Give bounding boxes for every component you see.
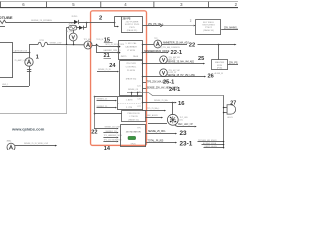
phototube stub wire: [0, 26, 5, 28]
wire monitor out 1: [146, 133, 175, 135]
wire to box pin2: [97, 45, 118, 53]
ammeter A4: [7, 139, 16, 151]
svg-text:SENSE2_25: SENSE2_25: [97, 106, 108, 108]
svg-text:25-1: 25-1: [163, 79, 174, 85]
svg-text:SENSE_25_MA: SENSE_25_MA: [154, 99, 168, 102]
svg-text:REF21_ALGN: REF21_ALGN: [205, 145, 218, 148]
wire to ammeter A3: [142, 44, 154, 46]
diode D2: [79, 26, 86, 30]
svg-text:SENSE_25_MA_VM_ADJ: SENSE_25_MA_VM_ADJ: [168, 60, 195, 63]
svg-text:23-1: 23-1: [180, 141, 193, 148]
node junction dot 2: [114, 22, 116, 24]
node dot bus pin 76: [142, 76, 144, 78]
svg-text:SENSE_25V_TMP: SENSE_25V_TMP: [105, 126, 122, 128]
svg-text:PTEC2: PTEC2: [205, 27, 213, 29]
svg-text:LT MON: LT MON: [127, 50, 135, 52]
wire sense1 input: [97, 100, 116, 102]
wire to precision box: [94, 113, 122, 115]
sheet top border thick line: [0, 7, 238, 9]
wire tube left pin 2: [145, 117, 161, 119]
node dot bus pin 102: [142, 102, 144, 104]
wire riser to PS box top: [115, 17, 122, 22]
svg-text:SENSE_25_20: SENSE_25_20: [98, 69, 111, 71]
open arrowhead: [160, 24, 162, 27]
atm box with dashed divider: [118, 97, 143, 110]
wire to PTEC box: [163, 25, 194, 27]
cathode rail wire: [29, 40, 84, 47]
arrowhead 23-1: [175, 142, 177, 144]
fuse F1: [69, 24, 80, 30]
svg-text:SENSE1_25I: SENSE1_25I: [106, 131, 118, 133]
bottom right join wire 3: [204, 147, 224, 149]
voltmeter VM5: [160, 69, 180, 77]
wire diode D1 to node: [79, 22, 114, 24]
arrowhead 16: [175, 102, 177, 104]
svg-text:(25): (25): [180, 120, 184, 122]
svg-text:GND_1: GND_1: [2, 84, 8, 86]
svg-text:ALINEA_ENGA: ALINEA_ENGA: [203, 142, 217, 145]
node dot rail-fuse: [66, 44, 68, 46]
inner zone border grey: [0, 46, 67, 114]
underline 15: [104, 42, 113, 44]
wire below A1: [29, 66, 31, 86]
node dot bus pin 63: [142, 63, 144, 65]
polarity tick marks: [27, 70, 31, 72]
svg-text:TP1_MA: TP1_MA: [84, 38, 92, 41]
wire tube left pin 1: [142, 110, 164, 112]
svg-text:26: 26: [208, 74, 214, 80]
svg-text:2: 2: [99, 15, 102, 21]
svg-text:MTR_45_MONITORS: MTR_45_MONITORS: [106, 44, 125, 46]
wire left drop vertical: [94, 96, 96, 128]
node dot on wire 22: [218, 44, 220, 46]
svg-text:LED25: LED25: [227, 117, 233, 119]
wire top of atm box: [127, 93, 224, 96]
voltmeter VM1: [66, 30, 78, 45]
node dot 113: [94, 113, 96, 115]
wire tube output: [175, 125, 195, 126]
power supply box PS25: [122, 17, 143, 33]
svg-text:TP5_25V_MA_COMMON: TP5_25V_MA_COMMON: [158, 46, 180, 49]
arrowhead hammerdrum: [167, 52, 169, 54]
arrowhead A4 wire: [55, 145, 57, 147]
svg-text:OTUBE: OTUBE: [0, 15, 13, 20]
svg-text:www.qslabs.com: www.qslabs.com: [11, 127, 45, 132]
svg-text:PAGE: PAGE: [133, 55, 139, 58]
svg-text:22: 22: [91, 129, 97, 135]
wire voltmeter VM5 row: [142, 76, 204, 78]
svg-text:25V PWR: 25V PWR: [126, 63, 136, 65]
svg-text:SENSE1_25: SENSE1_25: [97, 98, 108, 100]
svg-text:25V PS: 25V PS: [123, 18, 131, 20]
svg-text:TP5_25V_MONITOR: TP5_25V_MONITOR: [104, 140, 122, 142]
svg-text:1. 45V CAL: 1. 45V CAL: [125, 42, 137, 45]
node dot left drop: [94, 96, 96, 98]
svg-text:25 MON: 25 MON: [127, 70, 136, 72]
svg-text:CATHODE_K18: CATHODE_K18: [14, 50, 28, 53]
node dot 16: [172, 102, 174, 104]
svg-text:TP7GEM_485_ENGR: TP7GEM_485_ENGR: [198, 140, 217, 142]
svg-text:25V_MAINS_L: 25V_MAINS_L: [224, 26, 238, 29]
wire left drop top: [94, 96, 117, 98]
svg-text:REF_ALIGN: REF_ALIGN: [147, 114, 158, 117]
big loop right vertical: [223, 95, 225, 148]
svg-text:22: 22: [189, 42, 195, 48]
calibrate box 21: [119, 41, 143, 60]
svg-text:SENSE_25_OK1: SENSE_25_OK1: [148, 131, 166, 133]
svg-text:4MA1: 4MA1: [7, 139, 12, 142]
svg-text:SENSE_LOW: SENSE_LOW: [50, 43, 62, 45]
svg-text:CALIBRATE: CALIBRATE: [125, 45, 138, 48]
wire cathode riser: [29, 45, 31, 53]
underline 21: [104, 58, 112, 60]
svg-text:(PAGE 36): (PAGE 36): [203, 29, 214, 32]
diode D1: [72, 16, 79, 24]
wire tube lower left: [148, 123, 167, 125]
svg-text:AMMETER_25_MA_ADJ: AMMETER_25_MA_ADJ: [163, 41, 189, 44]
wire drop to PS box pin: [115, 22, 118, 27]
svg-text:HAMMERDRUM_DRIVE: HAMMERDRUM_DRIVE: [144, 50, 170, 53]
svg-text:SENSE_25_BYPASS: SENSE_25_BYPASS: [31, 19, 52, 22]
svg-text:1. ATM: 1. ATM: [126, 98, 133, 101]
svg-text:REF_LED_OP: REF_LED_OP: [178, 124, 193, 126]
wire to box pin1: [97, 45, 118, 47]
svg-text:(PAGE 31): (PAGE 31): [127, 29, 138, 32]
svg-text:PRECISION: PRECISION: [127, 113, 139, 115]
left phototube box: [0, 43, 13, 78]
svg-text:23: 23: [180, 130, 188, 137]
svg-text:LOW_25: LOW_25: [169, 72, 176, 74]
power control box 24: [120, 61, 143, 96]
svg-text:(PAGE 31): (PAGE 31): [128, 118, 139, 121]
wire branch down: [86, 22, 88, 28]
bottom right join wire 1: [198, 141, 224, 143]
wire into 24 box: [97, 71, 117, 73]
svg-text:MON: MON: [217, 65, 223, 67]
wire drop to master box: [218, 44, 220, 60]
wire ammeter A4 out: [15, 145, 55, 147]
phototube terminal squiggle: [0, 20, 6, 24]
sheet top border thin line: [0, 1, 238, 3]
svg-text:TP5_25_MA_L: TP5_25_MA_L: [147, 107, 160, 110]
bottom right join wire 2: [202, 144, 224, 146]
border column ticks: [1, 2, 209, 8]
svg-text:16: 16: [178, 101, 185, 107]
ammeter A1: [15, 58, 34, 66]
precision box: [122, 111, 146, 122]
wire stub 25-1: [142, 82, 146, 84]
svg-text:JMP25: JMP25: [121, 56, 127, 58]
svg-text:2. ITM: 2. ITM: [126, 107, 132, 109]
voltmeter VM4: [160, 56, 180, 64]
arrowhead wire 22: [234, 44, 236, 46]
gate U27: [223, 105, 236, 119]
svg-text:TOTAL_PLUS5: TOTAL_PLUS5: [148, 140, 164, 143]
svg-text:(PAGE 36): (PAGE 36): [126, 78, 137, 81]
orange highlight box: [91, 11, 147, 146]
wire monitor out 2: [146, 142, 175, 144]
wire 22 to right: [198, 44, 235, 46]
svg-text:25V MONITOR: 25V MONITOR: [126, 132, 141, 134]
svg-text:MASTER: MASTER: [215, 61, 225, 64]
node dot bus pin 44: [142, 44, 144, 46]
svg-text:CONTROL: CONTROL: [126, 67, 137, 69]
ammeter A2: [84, 38, 93, 49]
svg-text:TP2: TP2: [154, 38, 157, 40]
ammeter A3: [154, 38, 162, 48]
svg-text:SENSE_25_HV_VM_LOW: SENSE_25_HV_VM_LOW: [168, 75, 196, 77]
stubs to atm box top: [132, 93, 138, 97]
wire bypass top: [6, 22, 75, 24]
node dot: [96, 44, 98, 46]
svg-text:14: 14: [104, 146, 111, 150]
svg-text:LT MON: LT MON: [129, 116, 137, 118]
svg-text:2DP05: 2DP05: [72, 16, 78, 18]
arrowhead tube output: [195, 126, 197, 128]
orange highlight glow: [91, 11, 147, 146]
svg-text:HAMMER_DRM_25: HAMMER_DRM_25: [104, 49, 121, 52]
svg-text:25V_PS_OK: 25V_PS_OK: [229, 62, 238, 64]
monitor box inputs: [94, 126, 123, 142]
tube lamp V1: [167, 114, 188, 125]
monitor box 22: [121, 125, 146, 147]
node dot bus pin 52: [142, 52, 144, 54]
svg-text:24-1: 24-1: [169, 87, 180, 93]
wire ammeter A3 out: [162, 44, 187, 46]
cathode wire: [12, 52, 29, 54]
wire tube top drop: [172, 102, 174, 115]
wire hammerdrum drive: [142, 52, 166, 54]
arrowhead 23: [175, 133, 177, 135]
bus vertical right of boxes: [142, 44, 144, 102]
wire PTEC output: [221, 29, 238, 31]
svg-text:TM_25V: TM_25V: [66, 31, 74, 33]
svg-text:SENSE_25_20_WIRE_LOW: SENSE_25_20_WIRE_LOW: [24, 143, 48, 145]
wire 16 row: [142, 102, 174, 104]
arrowhead 25: [203, 63, 205, 65]
svg-text:ALIGN_M: ALIGN_M: [215, 72, 224, 75]
svg-text:(P36): (P36): [217, 68, 223, 70]
svg-text:RT35: RT35: [40, 40, 45, 42]
svg-text:22-1: 22-1: [171, 50, 183, 56]
wire stub 24-1: [142, 88, 146, 90]
arrowhead into PTEC: [194, 25, 196, 27]
key field switching box PTEC: [196, 20, 221, 35]
wire ammeter A2 out: [92, 45, 96, 47]
wire sense2 input: [97, 107, 116, 109]
svg-text:TP25: TP25: [130, 143, 136, 145]
svg-text:TP5_HAMMER_MON: TP5_HAMMER_MON: [104, 134, 123, 137]
svg-text:25: 25: [198, 56, 204, 62]
node junction dot: [86, 22, 88, 24]
arrowhead 26: [204, 76, 206, 78]
svg-text:SENSE_OK: SENSE_OK: [128, 89, 139, 91]
master monitor box: [212, 60, 228, 70]
node dot rail-voltmeter: [73, 44, 75, 46]
wire master box out: [227, 64, 238, 66]
ground wire: [2, 86, 29, 88]
node dots atm top: [131, 92, 133, 94]
wire PS box output: [142, 25, 160, 27]
wire fuse left leg: [67, 28, 69, 45]
svg-text:SUPPLY PS25: SUPPLY PS25: [125, 24, 140, 26]
svg-text:PS25: PS25: [129, 27, 135, 29]
wire cathode to ammeter A1: [29, 53, 31, 58]
svg-text:TP45_M: TP45_M: [96, 39, 104, 41]
wire voltmeter VM4 row: [142, 63, 203, 65]
node dot cathode: [29, 52, 31, 54]
